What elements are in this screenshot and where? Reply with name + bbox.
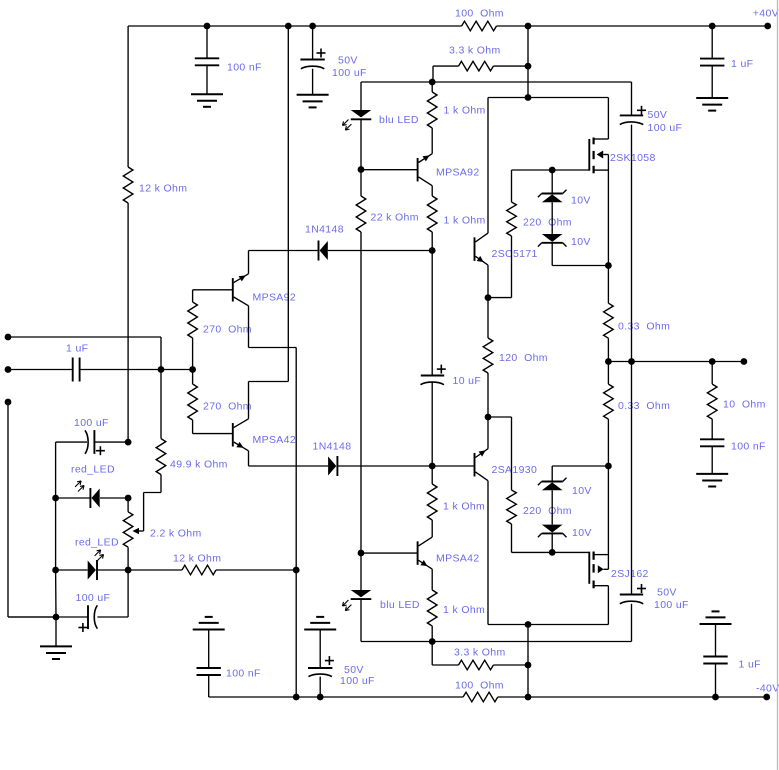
terminal input C bbox=[5, 399, 12, 406]
svg-text:100 uF: 100 uF bbox=[648, 122, 683, 134]
wire 1k#1 top lead bbox=[431, 82, 433, 92]
wire 2SJ162 drain lead bbox=[594, 585, 609, 587]
ground (100nF bottom) bbox=[193, 629, 225, 631]
MOSFET 2SJ162 gate bar bbox=[588, 552, 590, 584]
wire +40V rail right bbox=[497, 25, 768, 27]
wire 1uF#2 stem bbox=[715, 624, 717, 657]
resistor 0.33 Ohm (bottom) bbox=[604, 384, 614, 419]
wire 49.9k top lead bbox=[160, 370, 162, 439]
wire zener1 lead bbox=[551, 170, 553, 194]
svg-text:red_LED: red_LED bbox=[75, 536, 119, 548]
LED red (lower, points right) bbox=[96, 560, 98, 580]
wire 3.3k left lead bbox=[433, 65, 459, 67]
svg-text:2SK1058: 2SK1058 bbox=[610, 152, 656, 164]
capacitor 50V 100 uF (top left) bbox=[300, 59, 324, 61]
wire 220#1 node lead bbox=[488, 297, 512, 299]
svg-text:100 uF: 100 uF bbox=[76, 592, 111, 604]
svg-text:270 Ohm: 270 Ohm bbox=[203, 400, 252, 412]
LED red (upper, points left) bbox=[89, 488, 91, 508]
wire input MPSA92 emitter bbox=[248, 251, 250, 274]
transistor 2SA1930 bbox=[474, 453, 476, 477]
svg-text:22 k Ohm: 22 k Ohm bbox=[371, 211, 419, 223]
wire zener to source bbox=[552, 265, 608, 267]
wire 0.33#1 bottom lead bbox=[607, 338, 609, 361]
resistor 270 Ohm (upper) bbox=[188, 302, 198, 338]
wire left column to 100uF row bbox=[127, 203, 129, 442]
resistor 270 Ohm (lower) bbox=[188, 384, 198, 420]
wire wiper horiz2 bbox=[136, 530, 144, 532]
wire 22k to bottom LED bbox=[360, 232, 362, 553]
wire row1 to cap bbox=[56, 441, 87, 443]
ground (100uF top left) bbox=[297, 94, 329, 96]
junction output/zobel bbox=[709, 358, 716, 365]
capacitor 1 uF (top right) bbox=[700, 58, 724, 60]
junction top rail / 1uF bbox=[709, 23, 716, 30]
wire 22k top lead bbox=[360, 170, 362, 197]
junction bottom rail / x528 bbox=[525, 694, 532, 701]
capacitor 50V 100 uF (bottom left) bbox=[308, 667, 332, 669]
wire 100uF#2 stem bbox=[319, 630, 321, 669]
junction VAS top node bbox=[429, 247, 436, 254]
wire 220#1 bottom lead bbox=[511, 236, 513, 298]
wire -40V rail right bbox=[498, 696, 767, 698]
svg-text:10V: 10V bbox=[571, 236, 591, 248]
wire zener2 lead bbox=[551, 243, 553, 266]
wire zobel cap bottom bbox=[711, 446, 713, 474]
wire 12k#2 right lead bbox=[216, 569, 296, 571]
svg-text:blu LED: blu LED bbox=[380, 599, 420, 611]
svg-text:1 k Ohm: 1 k Ohm bbox=[444, 104, 486, 116]
junction 270s/input bbox=[189, 366, 196, 373]
resistor 49.9 k Ohm bbox=[156, 439, 166, 475]
wire 120 bottom lead bbox=[487, 373, 489, 417]
svg-text:10 Ohm: 10 Ohm bbox=[723, 398, 766, 410]
junction row4/ground bbox=[53, 614, 60, 621]
transistor MPSA92 (input) bbox=[232, 278, 234, 302]
junction VAS bottom node bbox=[429, 463, 436, 470]
MOSFET 2SK1058 channel stubs bbox=[592, 138, 594, 145]
junction row3 left bbox=[52, 567, 59, 574]
svg-text:1N4148: 1N4148 bbox=[313, 440, 352, 452]
wire row2 left bbox=[56, 497, 91, 499]
wire 1uF#2 to rail bbox=[715, 664, 717, 698]
capacitor 10 uF bbox=[421, 375, 444, 377]
capacitor 1 uF (input) bbox=[72, 358, 74, 382]
wire 270#2 bottom lead bbox=[192, 420, 194, 434]
terminal +40V bbox=[764, 23, 771, 30]
wire 100nF top lead bbox=[206, 26, 208, 58]
wire input A down bbox=[160, 337, 162, 370]
svg-text:50V: 50V bbox=[657, 586, 677, 598]
wire 1uF#1 bottom lead bbox=[711, 66, 713, 98]
wire 1uF#1 top lead bbox=[711, 26, 713, 59]
wire blu LED1 cathode bbox=[360, 119, 362, 169]
svg-text:1N4148: 1N4148 bbox=[305, 223, 344, 235]
wire zener mid bottom bbox=[551, 490, 553, 524]
svg-text:1 k Ohm: 1 k Ohm bbox=[443, 604, 485, 616]
LED light arrows (red upper) bbox=[78, 485, 84, 491]
wire driver collector lead bbox=[431, 186, 433, 196]
junction y641/1k chain bbox=[429, 638, 436, 645]
svg-text:MPSA92: MPSA92 bbox=[253, 291, 297, 303]
wire 12k#2 left lead bbox=[128, 569, 182, 571]
junction row1/left col bbox=[125, 439, 132, 446]
junction source/zener bottom bbox=[605, 463, 612, 470]
wire row3 left bbox=[56, 569, 88, 571]
wire zener mid bbox=[551, 202, 553, 234]
wire 1k#3 top lead bbox=[431, 466, 433, 484]
resistor R 100 Ohm (bottom rail) bbox=[463, 692, 498, 702]
svg-text:220 Ohm: 220 Ohm bbox=[523, 216, 572, 228]
wire input MPSA42 emitter down bbox=[248, 451, 250, 466]
wire ground stem bbox=[55, 617, 57, 646]
svg-text:1 k Ohm: 1 k Ohm bbox=[443, 500, 485, 512]
junction x528/y97 bbox=[525, 94, 532, 101]
LED blu (top) bbox=[351, 110, 372, 117]
junction row2 right bbox=[125, 495, 132, 502]
junction top rail / 100nF bbox=[204, 23, 211, 30]
svg-text:100 nF: 100 nF bbox=[227, 61, 262, 73]
wire 1k#2 bottom lead bbox=[431, 232, 433, 251]
terminal input A bbox=[5, 334, 12, 341]
wire 1N4148#2 left bbox=[249, 465, 329, 467]
zener 10V (top pair lower) bbox=[542, 242, 563, 244]
zener 10V (bottom pair upper) bbox=[542, 481, 563, 483]
svg-text:MPSA42: MPSA42 bbox=[436, 552, 480, 564]
wire input A horizontal bbox=[8, 336, 161, 338]
svg-text:1 uF: 1 uF bbox=[731, 58, 753, 70]
ground (1uF top right) bbox=[696, 97, 728, 99]
wire 100nF#2 stem bbox=[208, 630, 210, 669]
junction top rail / 3.3k branch bbox=[525, 23, 532, 30]
junction bottom rail / 1uF bbox=[712, 694, 719, 701]
wire gate top bbox=[512, 169, 590, 171]
svg-text:blu LED: blu LED bbox=[379, 114, 419, 126]
MOSFET 2SK1058 gate bar bbox=[588, 139, 590, 171]
ground (zobel) bbox=[696, 473, 728, 475]
capacitor 50V 100 uF (bootstrap bottom) bbox=[620, 594, 643, 596]
wire 2.2k bottom lead bbox=[127, 547, 129, 570]
wire y97 horizontal bbox=[488, 97, 608, 99]
junction output/0.33 bbox=[605, 358, 612, 365]
svg-text:2.2 k Ohm: 2.2 k Ohm bbox=[150, 527, 202, 539]
junction row3 right bbox=[125, 567, 132, 574]
wire bottom driver base bbox=[361, 552, 418, 554]
wire 1N4148#2 right bbox=[337, 465, 474, 467]
svg-text:0.33 Ohm: 0.33 Ohm bbox=[618, 400, 670, 412]
transistor MPSA92 driver (top) bbox=[417, 158, 419, 182]
wire 1k#1 bottom lead bbox=[431, 128, 433, 154]
wire row4 corner up bbox=[127, 570, 129, 617]
capacitor 50V 100 uF (bootstrap top) bbox=[620, 114, 643, 116]
junction 2SA1930 emitter node bbox=[485, 414, 492, 421]
wire input MPSA92 collector bbox=[248, 306, 250, 348]
resistor 10 Ohm (zobel) bbox=[707, 384, 717, 419]
svg-text:MPSA92: MPSA92 bbox=[436, 166, 480, 178]
junction gate/zener top bbox=[549, 167, 556, 174]
ground (input) bbox=[40, 645, 72, 647]
wire source down bbox=[607, 170, 609, 265]
capacitor 100 uF (input upper) bbox=[85, 430, 88, 453]
wire blu LED2 bottom bbox=[360, 599, 362, 641]
wire -40V rail left bbox=[209, 696, 463, 698]
diode 1N4148 (top) bbox=[318, 241, 320, 261]
wire input MPSA42 base bbox=[193, 433, 233, 435]
wire 2SA1930 emitter bbox=[487, 417, 489, 449]
wire 2.2k top lead bbox=[127, 498, 129, 512]
resistor 12 k Ohm (feedback) bbox=[182, 565, 216, 575]
resistor 1 k Ohm (top driver collector) bbox=[427, 196, 437, 232]
wire 10 Ohm top lead bbox=[711, 362, 713, 385]
svg-text:120 Ohm: 120 Ohm bbox=[499, 352, 548, 364]
LED light arrows (blu top) bbox=[342, 120, 348, 126]
junction 3.3k#2/x528 bbox=[525, 662, 532, 669]
svg-text:3.3 k Ohm: 3.3 k Ohm bbox=[449, 44, 501, 56]
wire 100uF top lead bbox=[312, 26, 314, 60]
svg-text:100 uF: 100 uF bbox=[654, 599, 689, 611]
capacitor 100 uF (input lower) bbox=[87, 605, 89, 629]
junction source/zener top bbox=[605, 262, 612, 269]
wire blu LED2 top bbox=[360, 553, 362, 590]
resistor 1 k Ohm (bottom driver emitter) bbox=[427, 590, 437, 626]
wire input MPSA42 collector up bbox=[248, 382, 250, 419]
wire +40V rail left bbox=[128, 25, 462, 27]
wire drain down bbox=[607, 586, 609, 625]
capacitor 100 nF (top left) bbox=[195, 57, 219, 59]
wire x296 long vertical bbox=[295, 348, 297, 698]
wire 1N4148#1 right bbox=[328, 250, 432, 252]
svg-text:-40V: -40V bbox=[756, 682, 779, 694]
wire gate bottom bbox=[512, 551, 590, 553]
svg-text:50V: 50V bbox=[338, 54, 358, 66]
svg-text:100 uF: 100 uF bbox=[332, 67, 367, 79]
wire zener3 lead bbox=[551, 466, 553, 482]
svg-text:100 uF: 100 uF bbox=[74, 417, 109, 429]
junction y82/1k chain bbox=[429, 79, 436, 86]
wire 220#2 top lead bbox=[511, 417, 513, 490]
wire bootstrap cap top lead bbox=[631, 82, 633, 115]
junction 3.3k/x528 bbox=[525, 63, 532, 70]
junction gate/zener bottom bbox=[549, 549, 556, 556]
terminal output bbox=[741, 358, 748, 365]
junction input/49.9k bbox=[158, 366, 165, 373]
wire collector to x296 bbox=[249, 347, 297, 349]
wire 3.3k#2 right lead bbox=[493, 664, 528, 666]
resistor 0.33 Ohm (top) bbox=[604, 303, 614, 338]
wire 270#2 top lead bbox=[192, 370, 194, 385]
resistor 1 k Ohm (top driver emitter) bbox=[427, 92, 437, 128]
svg-text:red_LED: red_LED bbox=[71, 463, 115, 475]
svg-text:100 Ohm: 100 Ohm bbox=[455, 679, 504, 691]
svg-text:1 k Ohm: 1 k Ohm bbox=[444, 214, 486, 226]
wire driver base bbox=[361, 169, 418, 171]
wire bottom bias y641 bbox=[361, 641, 632, 643]
wire 0.33#2 top lead bbox=[607, 362, 609, 385]
wire row3 right bbox=[97, 569, 128, 571]
wire 1N4148#1 left bbox=[249, 250, 319, 252]
wire 10uF top lead bbox=[431, 251, 433, 376]
wire wiper horiz1 bbox=[144, 492, 161, 494]
wire 2SJ162 source lead bbox=[594, 554, 609, 556]
wire source up bbox=[607, 466, 609, 555]
svg-text:2SC5171: 2SC5171 bbox=[492, 248, 538, 260]
wire left col rows3-4 bbox=[55, 570, 57, 617]
wire zener to source bottom bbox=[552, 465, 608, 467]
wire blu LED1 anode bbox=[360, 82, 362, 110]
junction bottom rail / 100uF bbox=[317, 694, 324, 701]
zener 10V (bottom pair lower) bbox=[542, 532, 563, 534]
wire bootstrap cap bottom lead bbox=[631, 604, 633, 642]
wire input C to ground node bbox=[8, 616, 56, 618]
wire 10uF bottom lead bbox=[431, 381, 433, 466]
svg-text:2SJ162: 2SJ162 bbox=[611, 568, 649, 580]
diode 1N4148 (bottom) bbox=[336, 456, 338, 476]
resistor 12 k Ohm (left) bbox=[123, 167, 133, 203]
wire x528 top bbox=[527, 26, 529, 98]
wire 3.3k#2 left lead bbox=[432, 664, 458, 666]
wire 100uF#2 to rail bbox=[319, 677, 321, 697]
junction x528/y624 bbox=[525, 621, 532, 628]
svg-text:12 k Ohm: 12 k Ohm bbox=[139, 182, 187, 194]
wire 2SC5171 collector bbox=[487, 98, 489, 234]
wire bootstrap to output bbox=[631, 125, 633, 362]
wire MPSA42 collector horizontal bbox=[249, 381, 289, 383]
svg-text:10 uF: 10 uF bbox=[453, 375, 482, 387]
wire zener4 lead bbox=[551, 533, 553, 552]
transistor MPSA42 driver (bottom) bbox=[417, 541, 419, 565]
resistor 22 k Ohm bbox=[356, 196, 366, 232]
LED light arrows (red lower) bbox=[98, 554, 104, 560]
svg-text:2SA1930: 2SA1930 bbox=[492, 464, 538, 476]
capacitor 100 nF (zobel) bbox=[700, 438, 724, 440]
svg-text:100 nF: 100 nF bbox=[226, 667, 261, 679]
wiper arrow into 2.2k bbox=[133, 528, 140, 534]
svg-text:12 k Ohm: 12 k Ohm bbox=[173, 552, 221, 564]
wire input C down bbox=[7, 402, 9, 617]
svg-text:+40V: +40V bbox=[753, 7, 779, 19]
terminal input B bbox=[5, 366, 12, 373]
wire 3.3k#2 left corner bbox=[431, 642, 433, 666]
wire 220#1 top lead bbox=[511, 170, 513, 202]
wire 0.33#1 top lead bbox=[607, 266, 609, 304]
svg-text:100 Ohm: 100 Ohm bbox=[455, 7, 504, 19]
svg-text:50V: 50V bbox=[648, 109, 668, 121]
junction output/bootstrap bbox=[628, 358, 635, 365]
wire top bias y82 bbox=[361, 81, 632, 83]
terminal -40V bbox=[763, 694, 770, 701]
wire left column upper bbox=[127, 26, 129, 167]
wire 3.3k right lead bbox=[493, 65, 528, 67]
svg-text:100 uF: 100 uF bbox=[340, 675, 375, 687]
junction top rail / 100uF bbox=[309, 23, 316, 30]
wire input B to cap bbox=[8, 369, 73, 371]
junction bottom LED/base bbox=[358, 550, 365, 557]
resistor 3.3 k Ohm (top) bbox=[459, 61, 494, 71]
capacitor 100 nF (bottom) bbox=[197, 667, 221, 669]
transistor 2SC5171 bbox=[474, 237, 476, 261]
wire output bbox=[608, 361, 744, 363]
svg-text:1 uF: 1 uF bbox=[66, 342, 88, 354]
svg-text:10V: 10V bbox=[572, 527, 592, 539]
svg-text:49.9 k Ohm: 49.9 k Ohm bbox=[170, 458, 228, 470]
wire 100uF bottom lead bbox=[312, 69, 314, 95]
ground (100uF bottom) bbox=[304, 629, 336, 631]
wire 220#2 bottom lead bbox=[511, 524, 513, 552]
resistor 1 k Ohm (bottom driver collector) bbox=[427, 484, 437, 520]
svg-text:0.33 Ohm: 0.33 Ohm bbox=[618, 320, 670, 332]
zener 10V (top pair upper) bbox=[542, 193, 563, 195]
wire 2SK1058 drain lead bbox=[594, 138, 609, 140]
wire x528 bottom bbox=[527, 625, 529, 698]
resistor R 100 Ohm (top rail) bbox=[462, 21, 497, 31]
MOSFET 2SJ162 body arrow bbox=[598, 565, 604, 573]
wire 1k#3 bottom lead bbox=[431, 520, 433, 537]
resistor 2.2 k Ohm (trimmer) bbox=[123, 512, 133, 547]
wire rail to input stage collector bbox=[287, 26, 289, 382]
wire 120 top lead bbox=[487, 298, 489, 338]
transistor MPSA42 (input) bbox=[232, 423, 234, 447]
svg-text:10V: 10V bbox=[571, 194, 591, 206]
wire y624 horizontal bbox=[488, 624, 608, 626]
junction row2 left bbox=[52, 495, 59, 502]
resistor 220 Ohm (bottom) bbox=[507, 490, 517, 524]
MOSFET 2SJ162 channel stubs bbox=[592, 552, 594, 560]
wire 2SA1930 collector bbox=[487, 481, 489, 625]
resistor 3.3 k Ohm (bottom) bbox=[459, 660, 494, 670]
wire bootstrap cap bottom top lead bbox=[631, 362, 633, 595]
wire wiper vert bbox=[143, 493, 145, 532]
svg-text:MPSA42: MPSA42 bbox=[253, 434, 297, 446]
svg-text:1 uF: 1 uF bbox=[739, 658, 761, 670]
capacitor 1 uF (bottom right) bbox=[703, 656, 727, 658]
junction top rail / x288 bbox=[285, 23, 292, 30]
LED blu (bottom) bbox=[351, 590, 372, 597]
wire bottom driver emitter lead bbox=[431, 569, 433, 590]
wire row2 right bbox=[100, 497, 128, 499]
wire 2SK1058 source lead bbox=[594, 169, 609, 171]
wire input cap to 270 node bbox=[80, 369, 193, 371]
resistor 220 Ohm (top) bbox=[507, 202, 517, 236]
resistor 120 Ohm bbox=[483, 338, 493, 373]
MOSFET 2SK1058 body arrow bbox=[597, 151, 604, 159]
LED light arrows (blu bottom) bbox=[342, 600, 348, 606]
ground (1uF bottom right) bbox=[700, 623, 732, 625]
wire 220#2 node lead bbox=[488, 416, 512, 418]
wire 10 Ohm bottom lead bbox=[711, 419, 713, 439]
wire row4 cap to corner bbox=[97, 616, 128, 618]
wire left col rows2-3 bbox=[55, 498, 57, 570]
wire 100nF bottom lead bbox=[206, 65, 208, 94]
junction 12k#2/x296 bbox=[293, 567, 300, 574]
svg-text:220 Ohm: 220 Ohm bbox=[523, 505, 572, 517]
wire row1 cap to dot bbox=[94, 441, 128, 443]
junction 2SC5171 emitter node bbox=[485, 294, 492, 301]
ground (100nF top left) bbox=[191, 93, 223, 95]
wire 0.33#2 bottom lead bbox=[607, 419, 609, 466]
wire 100nF#2 to rail bbox=[208, 675, 210, 697]
wire 2SC5171 emitter bbox=[487, 265, 489, 298]
wire 49.9k bottom lead bbox=[160, 475, 162, 493]
svg-text:100 nF: 100 nF bbox=[731, 440, 766, 452]
svg-text:10V: 10V bbox=[572, 485, 592, 497]
svg-text:270 Ohm: 270 Ohm bbox=[203, 323, 252, 335]
wire 270#1 top lead bbox=[192, 290, 194, 302]
wire 3.3k left corner bbox=[432, 66, 434, 82]
wire input MPSA92 base bbox=[193, 289, 233, 291]
svg-text:3.3 k Ohm: 3.3 k Ohm bbox=[454, 646, 506, 658]
junction LED1/22k/base bbox=[358, 166, 365, 173]
wire 270#1 bottom lead bbox=[192, 338, 194, 370]
